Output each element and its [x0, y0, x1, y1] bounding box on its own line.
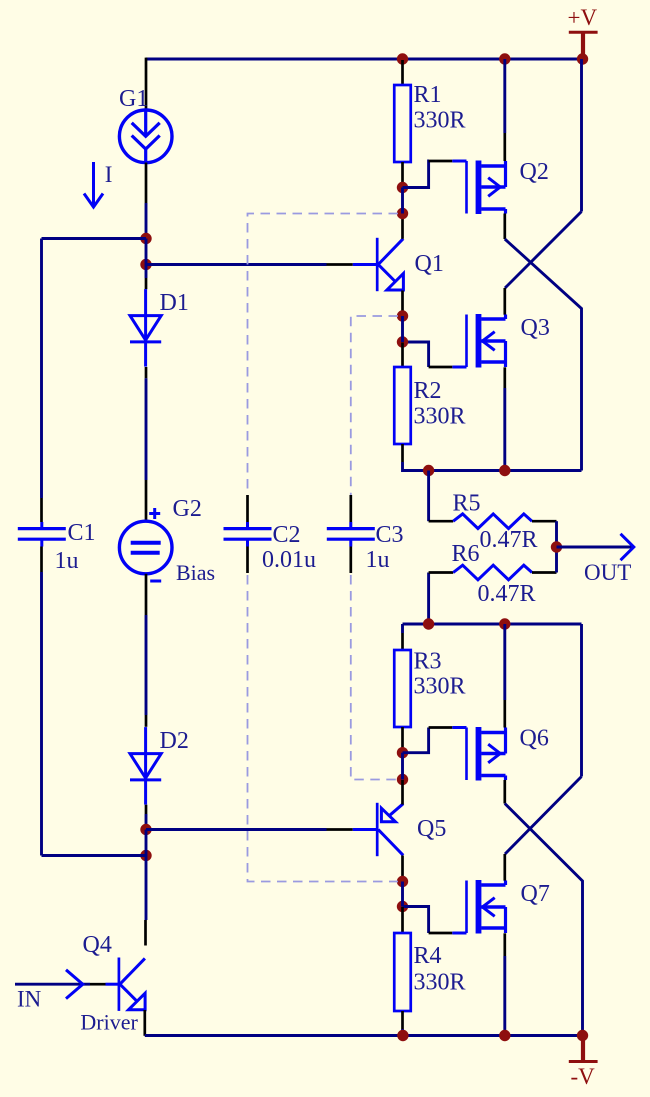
transistor Q1	[353, 238, 404, 291]
wire C1 top pin	[40, 498, 43, 522]
wire between dots R3	[401, 753, 404, 780]
wire Q1 base pin	[327, 263, 353, 266]
node dot 146-238	[140, 233, 151, 244]
label R3	[414, 648, 442, 674]
wire Q3 gate	[403, 342, 453, 367]
label R2 value 330R	[414, 403, 466, 429]
diode D2	[130, 727, 161, 805]
svg-text:-V: -V	[571, 1064, 596, 1089]
wire G1 to node	[145, 203, 148, 239]
capacitor C3 bottom pin	[349, 547, 352, 574]
svg-text:C1: C1	[68, 520, 96, 546]
label R6	[452, 541, 480, 567]
label R5 value	[480, 527, 538, 553]
wire R5 right	[555, 521, 558, 547]
wire lower rail top	[403, 623, 582, 626]
svg-text:0.01u: 0.01u	[262, 547, 316, 573]
svg-text:1u: 1u	[55, 548, 79, 574]
wire left rail lower	[40, 572, 43, 856]
transistor Q5	[353, 803, 403, 856]
wire G1 bottom pin	[145, 163, 148, 203]
wire Q1 emitter pin	[401, 291, 404, 316]
wire Q4 collector pin	[144, 920, 147, 946]
wire D2 to node	[145, 814, 148, 830]
svg-text:330R: 330R	[414, 403, 466, 429]
wire Q6 source pin	[503, 780, 506, 804]
node dot 146-264	[140, 259, 151, 270]
svg-text:Q5: Q5	[417, 816, 446, 842]
transistor Q4	[106, 958, 146, 1011]
wire Q5 collector pin	[401, 856, 404, 882]
label R1	[414, 82, 442, 108]
wire R6 left pin	[429, 571, 454, 574]
label C3	[376, 522, 404, 548]
node dot 146-829	[140, 824, 151, 835]
wire Q7 source pin	[503, 933, 506, 956]
wire R6 right pin	[532, 571, 557, 574]
wire C1 bottom pin	[40, 547, 43, 573]
svg-text:C2: C2	[273, 522, 301, 548]
label R5	[453, 491, 481, 517]
wire R2 to out rail	[403, 462, 582, 471]
svg-text:Q3: Q3	[521, 315, 550, 341]
wire Q5 base	[146, 828, 327, 831]
svg-text:Q1: Q1	[415, 251, 444, 277]
wire crossover Q2-source to right rail	[505, 239, 582, 471]
svg-text:330R: 330R	[414, 107, 466, 133]
wire Q4 emitter pin	[143, 1010, 146, 1036]
wire Q3 source pin	[503, 367, 506, 388]
wire left rail upper	[40, 239, 43, 499]
svg-text:D1: D1	[160, 290, 189, 316]
svg-text:R1: R1	[414, 82, 442, 108]
label R1 value 330R	[414, 107, 466, 133]
resistor R3	[394, 650, 411, 727]
svg-text:1u: 1u	[366, 547, 390, 573]
label D2	[160, 728, 189, 754]
wire R4 to bottom rail	[401, 1029, 404, 1036]
wire crossover Q6-source to right rail	[505, 804, 583, 1036]
label G2	[173, 496, 202, 522]
node dot 402-342	[397, 336, 408, 347]
wire R5 left	[427, 471, 430, 522]
wire G2 bottom pin	[145, 574, 148, 615]
capacitor C3	[327, 522, 375, 547]
node dot 402-187	[397, 182, 408, 193]
node dot 402-213	[397, 208, 408, 219]
label I	[105, 162, 113, 187]
svg-text:IN: IN	[17, 987, 42, 1012]
wire G2 to D2	[145, 615, 148, 715]
label Q1	[415, 251, 444, 277]
svg-text:330R: 330R	[414, 969, 466, 995]
label Q4	[83, 932, 112, 958]
label R4 value 330R	[414, 969, 466, 995]
wire Q2 gate	[403, 161, 453, 188]
wire D1 to G2	[145, 378, 148, 480]
wire left branch top	[42, 237, 147, 240]
wire Q6 drain pin	[503, 700, 506, 728]
svg-text:0.47R: 0.47R	[478, 581, 536, 607]
voltage source G2 Bias	[119, 508, 172, 581]
node dot 504-470	[499, 465, 510, 476]
wire R1 top pin	[401, 60, 404, 85]
label C3 value 1u	[366, 547, 390, 573]
wire between dots Q5c	[401, 882, 404, 907]
wire D2 bottom pin	[145, 805, 148, 814]
label IN	[17, 987, 42, 1012]
svg-text:R2: R2	[414, 378, 442, 404]
wire R2 bottom pin	[401, 444, 404, 462]
resistor R5	[453, 514, 532, 529]
svg-text:Q6: Q6	[520, 726, 549, 752]
label R2	[414, 378, 442, 404]
svg-text:R4: R4	[414, 943, 442, 969]
wire Q5 base pin	[327, 828, 353, 831]
wire Q2 drain pin	[503, 133, 506, 161]
wire top rail	[146, 58, 583, 61]
wire R4 top pin	[401, 907, 404, 933]
resistor R4	[394, 933, 411, 1011]
label C2 value 0.01u	[262, 547, 316, 573]
current source G1	[119, 110, 172, 163]
annotation current arrow I	[84, 162, 103, 207]
label Q3	[521, 315, 550, 341]
wire Q3 source to out rail	[503, 388, 506, 471]
wire left branch bottom	[42, 854, 147, 857]
svg-text:OUT: OUT	[584, 560, 631, 585]
wire R4 bottom pin	[401, 1011, 404, 1029]
wire right rail from +V	[580, 59, 583, 212]
label Q5	[417, 816, 446, 842]
wire node to D1	[145, 239, 148, 279]
svg-text:G2: G2	[173, 496, 202, 522]
node dot 402-906	[397, 901, 408, 912]
wire right rail from out	[580, 624, 583, 777]
label Bias	[176, 560, 215, 585]
node dot 402-316	[397, 310, 408, 321]
wire Q7 drain pin	[503, 854, 506, 881]
wire G1 top pin	[145, 58, 148, 110]
wire Q6 drain wire	[503, 624, 506, 700]
label Driver	[80, 1010, 138, 1035]
wire IN	[15, 983, 90, 986]
wire Q1 base	[146, 263, 327, 266]
svg-text:Driver: Driver	[80, 1010, 138, 1035]
label Q2	[520, 159, 549, 185]
power -V symbol	[569, 1038, 598, 1089]
label D1	[160, 290, 189, 316]
svg-text:Bias: Bias	[176, 560, 215, 585]
wire Q1 collector pin	[401, 214, 404, 239]
node top-rail junction dots	[397, 53, 588, 64]
svg-text:+V: +V	[568, 5, 598, 30]
wire R6 right	[555, 547, 558, 573]
svg-text:330R: 330R	[414, 674, 466, 700]
label R6 value	[478, 581, 536, 607]
annotation OUT arrow	[621, 534, 634, 560]
node dot OUT	[551, 541, 562, 552]
mosfet Q3	[452, 314, 505, 368]
label G1	[119, 86, 148, 112]
wire Q2 drain wire	[503, 59, 506, 133]
resistor R2	[394, 367, 411, 444]
wire D1 bottom pin	[145, 367, 148, 378]
node dot 504-624	[499, 618, 510, 629]
label OUT	[584, 560, 631, 585]
resistor R1	[394, 85, 411, 162]
wire Q3 drain pin	[503, 288, 506, 315]
wire Q7 source to bottom rail	[503, 956, 506, 1036]
mosfet Q7	[452, 880, 505, 934]
svg-text:Q7: Q7	[521, 881, 550, 907]
wire crossover right rail to Q3-drain	[505, 212, 582, 289]
capacitor C2	[224, 522, 272, 547]
node dot 146-855	[140, 850, 151, 861]
wire D1 top pin	[145, 278, 148, 289]
label Q7	[521, 881, 550, 907]
svg-text:R6: R6	[452, 541, 480, 567]
wire R2 top pin	[401, 343, 404, 368]
svg-text:Q4: Q4	[83, 932, 112, 958]
svg-text:I: I	[105, 162, 113, 187]
svg-text:R3: R3	[414, 648, 442, 674]
wire Q6 gate	[403, 728, 453, 753]
capacitor C2 bottom pin	[246, 547, 249, 574]
capacitor C3 top pin	[349, 495, 352, 522]
label R3 value 330R	[414, 674, 466, 700]
node dot bottom rail	[397, 1030, 588, 1041]
label R4	[414, 943, 442, 969]
wire Q7 gate	[403, 907, 453, 934]
node dot 402-881	[397, 876, 408, 887]
diode D1	[130, 289, 161, 367]
resistor R6	[453, 565, 532, 580]
node dot 402-752	[397, 747, 408, 758]
wire between nodes 146	[145, 830, 148, 856]
mosfet Q6	[452, 727, 505, 781]
dashed box 1 (C2 feedback path)	[248, 214, 399, 882]
wire OUT	[557, 546, 633, 549]
svg-text:G1: G1	[119, 86, 148, 112]
label Q6	[520, 726, 549, 752]
svg-text:0.47R: 0.47R	[480, 527, 538, 553]
annotation IN arrow	[66, 970, 106, 999]
wire R1 bottom pin	[401, 162, 404, 187]
wire R5 left pin	[429, 520, 454, 523]
wire G2 top pin	[145, 480, 148, 521]
mosfet Q2	[452, 161, 505, 215]
wire Q2 source pin	[503, 214, 506, 240]
node dot 428-624	[423, 618, 434, 629]
svg-text:R5: R5	[453, 491, 481, 517]
wire R3 top pin	[401, 624, 404, 650]
capacitor C2 top pin	[246, 495, 249, 522]
wire Q5 emitter pin	[401, 780, 404, 805]
capacitor C1	[18, 522, 66, 547]
wire D2 top pin	[145, 715, 148, 727]
node dot 402-779	[397, 774, 408, 785]
dashed box 2 (C3 feedback path)	[351, 316, 398, 780]
wire Q4 collector	[145, 856, 148, 921]
svg-text:C3: C3	[376, 522, 404, 548]
wire between dots Q1e	[401, 316, 404, 342]
node dot 428-470	[423, 465, 434, 476]
label C1 value 1u	[55, 548, 79, 574]
wire crossover right rail to Q7-drain	[505, 777, 582, 855]
svg-text:D2: D2	[160, 728, 189, 754]
svg-text:Q2: Q2	[520, 159, 549, 185]
power +V symbol	[568, 5, 598, 56]
wire between dots R1	[401, 188, 404, 214]
wire R5 right pin	[532, 520, 557, 523]
wire R6 left	[427, 573, 430, 625]
label C2	[273, 522, 301, 548]
label C1	[68, 520, 96, 546]
wire R3 bottom pin	[401, 727, 404, 753]
wire bottom rail	[145, 1034, 583, 1037]
